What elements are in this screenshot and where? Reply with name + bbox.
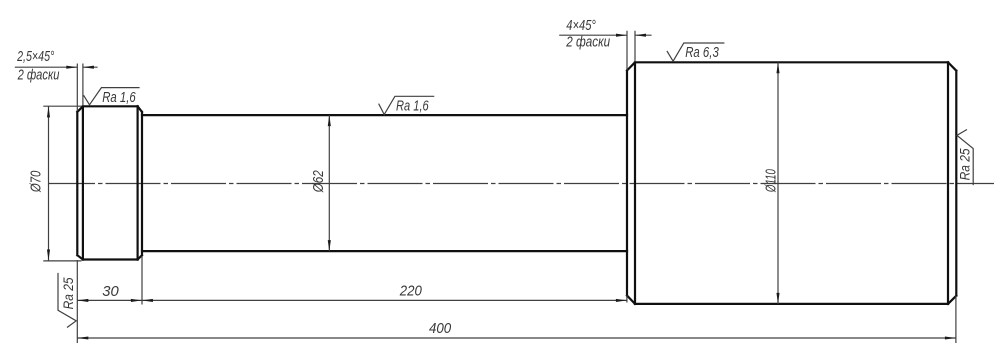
svg-text:Ra 1,6: Ra 1,6 bbox=[396, 99, 429, 115]
chamfer 2,5x45 arrows bbox=[66, 66, 94, 69]
svg-text:Ra 1,6: Ra 1,6 bbox=[102, 90, 136, 106]
dimension d70 line bbox=[48, 106, 50, 260]
chamfer 4x45 arrows bbox=[616, 34, 646, 37]
dimension d70 extension lines bbox=[43, 106, 81, 261]
roughness Ra 25 on left end face bbox=[58, 273, 76, 328]
chamfer 4x45 dimension line bbox=[559, 34, 651, 36]
svg-text:Ø62: Ø62 bbox=[311, 170, 327, 193]
shaft section 2 (diameter 62) outline bbox=[142, 115, 627, 251]
section 3 chamfer edge lines bbox=[635, 62, 948, 304]
svg-text:Ra 6,3: Ra 6,3 bbox=[685, 45, 719, 61]
svg-text:Ø110: Ø110 bbox=[764, 169, 780, 193]
dimension 30 arrows bbox=[77, 299, 142, 302]
dimension d62 line bbox=[328, 115, 330, 251]
svg-text:Ø70: Ø70 bbox=[28, 171, 44, 193]
centerline bbox=[48, 183, 994, 185]
svg-text:Ra 25: Ra 25 bbox=[957, 148, 973, 180]
extension line below step 1 bbox=[76, 260, 78, 343]
svg-text:30: 30 bbox=[102, 283, 119, 300]
roughness Ra 25 on right end face bbox=[957, 130, 973, 186]
roughness Ra 6,3 on section 3 bbox=[667, 43, 725, 61]
svg-text:4×45°: 4×45° bbox=[566, 18, 596, 34]
shaft section 3 (diameter 110) outline bbox=[627, 62, 956, 304]
roughness Ra 1,6 on section 2 bbox=[379, 96, 435, 114]
dimension d110 line bbox=[777, 62, 779, 304]
chamfer 2,5x45 extension lines bbox=[77, 64, 83, 112]
dimension 30-220 chained line bbox=[77, 299, 627, 301]
dimension 400 line bbox=[77, 337, 956, 339]
svg-text:Ra 25: Ra 25 bbox=[60, 277, 76, 309]
chamfer 4x45 extension lines bbox=[627, 31, 635, 70]
shaft section 1 (diameter 70) outline bbox=[77, 106, 142, 259]
svg-text:2 фаски: 2 фаски bbox=[565, 34, 610, 50]
dimension 220 arrows bbox=[142, 299, 627, 302]
extension line below step 3 bbox=[626, 296, 628, 303]
dimension d110 arrows bbox=[776, 62, 779, 304]
svg-text:220: 220 bbox=[399, 282, 422, 299]
svg-text:400: 400 bbox=[429, 320, 452, 337]
dimension d62 arrows bbox=[328, 115, 331, 251]
dimension d70 arrows bbox=[47, 106, 50, 260]
section 1 chamfer edge lines bbox=[83, 106, 138, 259]
extension line below right end bbox=[955, 296, 957, 343]
extension line below step 2 bbox=[141, 256, 143, 305]
svg-text:2,5×45°: 2,5×45° bbox=[16, 49, 54, 65]
chamfer 2,5x45 dimension line bbox=[15, 66, 98, 68]
roughness Ra 1,6 on section 1 bbox=[84, 88, 140, 105]
svg-text:2 фаски: 2 фаски bbox=[17, 67, 60, 83]
dimension 400 arrows bbox=[77, 336, 956, 339]
